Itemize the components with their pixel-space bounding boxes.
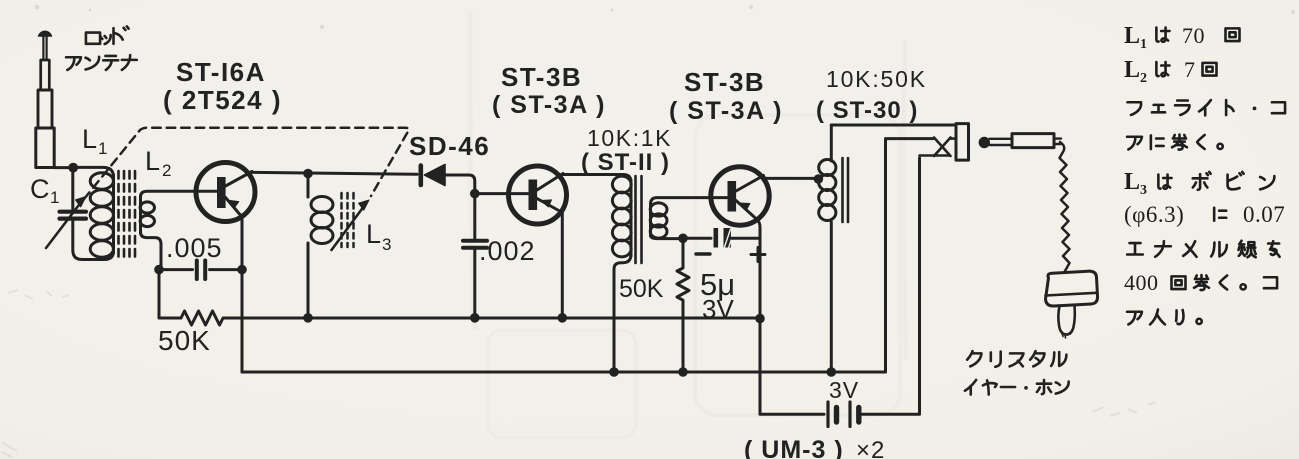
wire: L2 bottom down to .005 node [141,232,162,266]
node: T1 primary bottom on rail [609,367,619,377]
node: .002 bottom on rail [470,313,480,323]
coil L2 [140,196,154,233]
note text block (winding instructions) [1124,23,1285,324]
transistor Q3 ST-3B (2nd) [711,167,769,414]
svg-text:3: 3 [1140,183,1148,198]
resistor 50K (2nd, vertical) [677,242,689,368]
svg-text:3V: 3V [702,294,734,324]
label C1 [30,174,59,207]
node: T2 bottom on rail [827,367,837,377]
wire: Q1 collector rail [251,172,417,174]
svg-text:SD-46: SD-46 [409,131,490,161]
wire: antenna to node [54,166,69,169]
node: diode / .002 / Q2 base [470,189,480,199]
ferrite core of L1/L2 (dashed) [119,171,136,258]
wire: Q3 collector to T2 tap [763,177,816,179]
svg-text:( UM-3 ): ( UM-3 ) [744,436,844,459]
note line 9 [1127,312,1142,325]
svg-text:7: 7 [1184,57,1196,82]
node: .005 left [154,265,164,275]
capacitor 5u 3V electrolytic [687,228,760,248]
capacitor C1 (variable) [46,197,86,249]
label L3 [366,219,391,254]
label ST-3B (ST-3A) [492,62,606,119]
node: L3 bottom on rail [303,313,313,323]
node: T1 secondary bottom / 50K / 5u [678,234,688,244]
svg-text:L: L [1124,23,1141,49]
ganged tuning dashed link C1-L3 [84,128,409,199]
svg-text:400: 400 [1124,270,1159,295]
wire: diode to Q2 base node [445,175,475,189]
capacitor .005 [161,261,238,280]
transformer T2 10K:50K ST-30 [819,125,836,368]
node: 50K bottom on rail [678,367,688,377]
coil L3 (tuned, adjustable core) [308,178,333,313]
earphone plug [979,134,1061,149]
svg-text:50K: 50K [619,275,664,303]
label L1 [82,124,107,158]
svg-text:( ST-3A ): ( ST-3A ) [492,91,606,119]
node: emitter rail end [755,314,765,324]
diode SD-46 [421,165,445,186]
arrow of L3 core adjust [332,208,364,251]
svg-text:C: C [30,174,50,204]
svg-text:1: 1 [98,139,107,158]
svg-text:10K:1K: 10K:1K [587,125,672,151]
wire: L2 top to Q1 base [141,191,218,197]
svg-text:50K: 50K [158,325,211,356]
core of L3 (dashed) [342,193,354,247]
note line 3 [1128,102,1142,115]
labels - + 5u 3V [696,252,710,255]
svg-text:L: L [366,219,381,249]
node: .005 right [237,265,247,275]
svg-text:( ST-30 ): ( ST-30 ) [816,97,918,124]
transformer T1 10K:1K ST-11 primary [612,176,631,368]
jack body [956,124,969,161]
coil L1 [90,173,113,257]
svg-text:L: L [1124,57,1141,83]
svg-text:1: 1 [50,188,59,207]
label 10K:1K (ST-11) [581,125,672,176]
label ST-3B (ST-3A) 2nd [669,67,783,125]
wire: Q2 collector to T1 primary [562,175,631,183]
resistor 50K (base bias) [181,311,758,325]
paper texture blobs [35,5,1296,30]
svg-text:L: L [145,146,160,176]
bottom rail (battery +) [242,371,886,374]
crystal earphone [1046,271,1098,338]
label L2 [145,146,171,180]
svg-text:ST-3B: ST-3B [684,67,765,97]
wire: Q1 emitter down to bottom rail [241,274,244,372]
wire: node down to C1 [71,172,74,209]
svg-text:×2: ×2 [856,437,885,459]
svg-text:ST-I6A: ST-I6A [176,57,266,87]
svg-text:L: L [82,124,97,154]
svg-text:ST-3B: ST-3B [501,62,582,92]
note line 7 [1127,243,1143,254]
node: antenna / C1 / L1 junction [68,163,78,173]
capacitor .002 [463,198,487,313]
wire: rail right end up to jack switch [886,139,934,372]
rod antenna [36,31,54,167]
jack switch cross [920,138,956,157]
transformer T1 secondary [650,198,727,239]
label: rod antenna (roddo antena) [66,26,137,70]
wire: node to Q2 base [479,192,528,195]
svg-text:1: 1 [1140,37,1148,52]
svg-text:2: 2 [162,161,171,180]
core of T2 [843,158,849,222]
label crystal earphone [965,351,1069,394]
svg-text:( 2T524 ): ( 2T524 ) [163,85,282,115]
svg-text:0.07: 0.07 [1243,202,1285,227]
wire: node to L1 top [77,167,114,177]
core of T1 [636,176,642,263]
svg-text:3V: 3V [829,377,859,403]
battery 3V UM-3 x2 [760,158,920,427]
svg-text:.005: .005 [166,233,223,263]
node: collector / L3 top [303,169,313,179]
svg-text:( ST-3A ): ( ST-3A ) [669,97,783,125]
svg-text:( ST-II ): ( ST-II ) [581,149,670,176]
svg-text:.002: .002 [479,236,536,266]
label (UM-3)x2 [744,436,885,459]
label 10K:50K (ST-30) [816,66,927,124]
svg-text:10K:50K: 10K:50K [826,66,927,92]
svg-text:(φ6.3): (φ6.3) [1124,202,1184,227]
note line 4 [1127,137,1142,150]
wire: T2 top to jack [831,124,955,127]
wire: C1 bottom to L1 bottom [73,221,114,260]
transistor Q1 ST-16A [196,163,255,267]
svg-text:3: 3 [382,235,391,254]
node: Q2 emitter on rail [558,313,568,323]
cord (twisted) [1060,142,1070,271]
node: T2 tap / Q3 collector [814,174,824,184]
svg-text:L: L [1124,169,1141,195]
wire: node down left side to resistor [159,274,181,318]
svg-text:2: 2 [1140,71,1148,86]
transistor Q2 ST-3B [509,166,567,313]
label ST-16A (2T524) [163,57,282,115]
svg-text:70: 70 [1182,23,1205,48]
